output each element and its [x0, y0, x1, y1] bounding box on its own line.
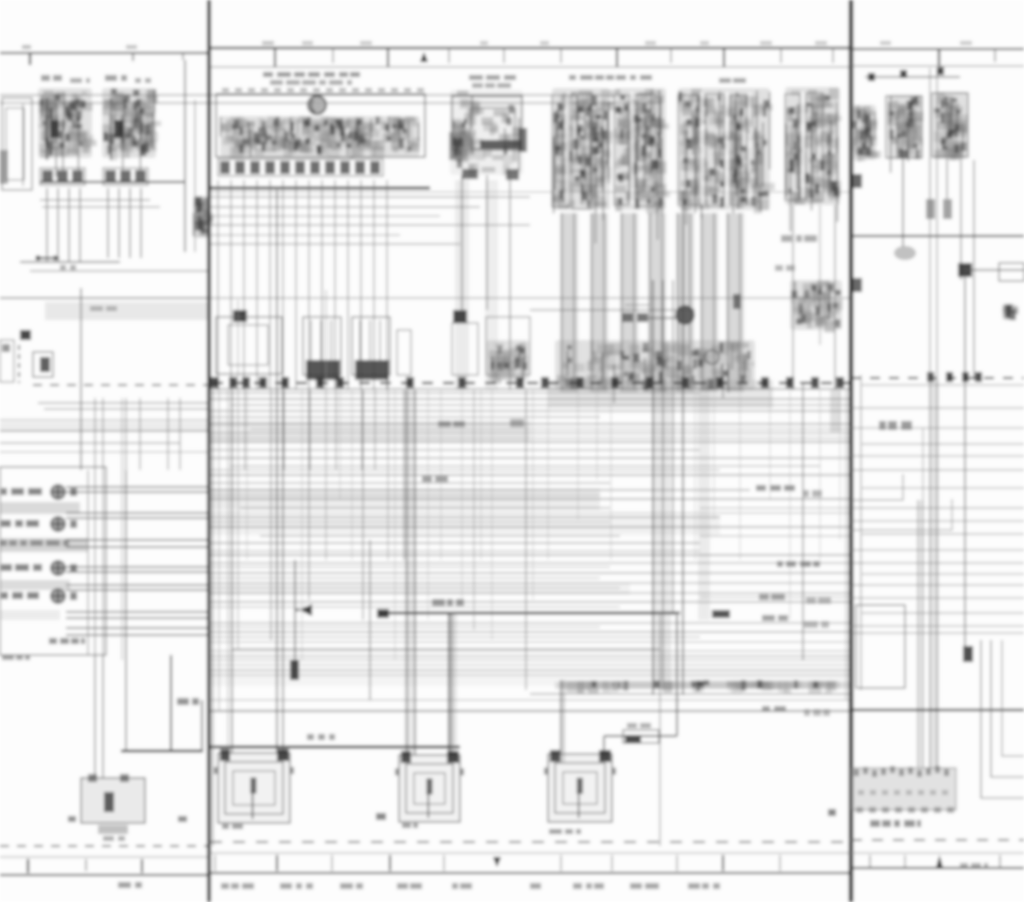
wire label — [422, 476, 448, 482]
wire — [917, 500, 919, 768]
wire — [965, 269, 1024, 271]
junction on dashed line — [975, 372, 982, 382]
wire — [210, 206, 480, 208]
wire — [700, 535, 851, 537]
tick on divider — [853, 174, 862, 188]
wire — [936, 68, 938, 768]
battery A — [81, 774, 145, 834]
wire end terminal — [377, 609, 389, 618]
injector N1 pin — [330, 320, 332, 360]
wire label — [804, 709, 830, 716]
wire — [110, 98, 112, 160]
wire — [335, 390, 337, 470]
wire label — [762, 706, 786, 712]
connector cross row 3 — [51, 561, 77, 575]
wire — [851, 597, 1024, 599]
wire — [532, 390, 534, 600]
page divider 2 — [849, 0, 854, 902]
wire — [210, 196, 530, 198]
wire label — [777, 561, 820, 567]
footer text — [573, 883, 604, 889]
wire — [334, 180, 336, 390]
connector T4a — [40, 168, 85, 185]
wire — [0, 94, 652, 96]
wire — [374, 390, 376, 470]
relay cluster right — [785, 87, 842, 232]
relay frame — [637, 94, 655, 206]
wire — [451, 613, 453, 755]
junction on dashed line — [259, 377, 267, 388]
wire — [42, 206, 160, 208]
footer text — [280, 883, 313, 889]
wire — [212, 390, 214, 846]
wire — [427, 390, 429, 620]
wire — [276, 190, 278, 753]
scale tick — [779, 855, 781, 871]
footer text — [118, 882, 142, 888]
wire — [739, 213, 741, 390]
wire — [118, 188, 120, 258]
wire — [603, 736, 605, 755]
V2 label — [402, 823, 418, 828]
dashed border line — [0, 845, 209, 847]
wire — [301, 390, 303, 660]
scale arrow — [420, 52, 428, 62]
relay group haze — [450, 90, 523, 177]
wire — [68, 188, 70, 262]
relay K1 label 2 — [70, 78, 90, 83]
wire — [256, 180, 258, 390]
harness shading — [455, 180, 469, 390]
ECU connector strip — [218, 159, 383, 176]
wire — [851, 455, 1024, 457]
ECU internal contacts — [220, 116, 420, 159]
valve label — [622, 313, 648, 322]
wire — [819, 205, 821, 345]
terminal — [943, 199, 952, 219]
wire — [210, 449, 700, 451]
wire — [851, 584, 1024, 586]
scale tick — [670, 48, 672, 63]
relay frame — [806, 93, 823, 201]
wire — [308, 390, 310, 600]
injector N2 pin — [359, 320, 361, 360]
junction node — [233, 310, 247, 322]
wire — [227, 390, 229, 753]
wire — [210, 441, 851, 443]
scale number — [360, 41, 372, 45]
wire — [246, 390, 248, 560]
junction on dashed line — [761, 377, 769, 388]
wire — [210, 562, 851, 564]
wire — [860, 375, 862, 690]
component marks — [790, 280, 843, 333]
title text — [263, 72, 360, 77]
wire — [210, 542, 700, 544]
scale number — [126, 45, 137, 49]
wire — [727, 213, 729, 390]
wire — [210, 243, 460, 245]
arrow junction — [295, 604, 312, 616]
bottom ruler line 2 — [851, 867, 1024, 869]
sensor box G2 — [452, 323, 478, 375]
instrument cluster block — [0, 467, 106, 655]
wire — [339, 390, 341, 500]
wire — [461, 175, 463, 310]
wire — [486, 175, 488, 310]
wire — [676, 615, 678, 736]
wire — [325, 290, 327, 560]
wire — [210, 577, 600, 579]
wire — [230, 465, 820, 467]
wire — [210, 659, 851, 661]
wire label — [879, 421, 912, 430]
wire — [66, 571, 209, 573]
component label 3 — [569, 75, 652, 80]
wire — [66, 584, 209, 586]
scale tick — [389, 855, 391, 871]
wire corner — [851, 499, 952, 530]
small component — [397, 330, 411, 375]
label text — [2, 655, 30, 660]
wire — [40, 199, 150, 201]
wire — [573, 213, 575, 390]
resistor label — [627, 723, 651, 728]
harness shading — [698, 390, 710, 620]
blower motor V1 — [214, 749, 294, 823]
wire — [530, 693, 851, 695]
terminal mark — [733, 294, 741, 309]
wire — [713, 213, 715, 390]
wire — [66, 539, 209, 541]
wire — [210, 566, 610, 568]
wire — [839, 390, 841, 540]
cluster gap — [566, 92, 570, 204]
wire — [701, 213, 703, 390]
wire corner — [851, 474, 903, 500]
scale number — [815, 41, 827, 45]
wire — [125, 470, 127, 751]
wire — [210, 437, 851, 439]
wire — [210, 699, 851, 701]
wire — [819, 390, 821, 560]
panel inner marks — [858, 790, 948, 795]
wire — [125, 398, 127, 470]
junction node — [290, 660, 299, 680]
scale tick — [676, 855, 678, 871]
scale tick — [27, 859, 29, 873]
scale tick — [182, 53, 184, 60]
wire — [210, 664, 851, 666]
relay frame — [785, 94, 800, 200]
wire — [94, 655, 96, 778]
wire — [184, 60, 186, 252]
injector N1 base — [306, 360, 340, 380]
relay frame — [614, 95, 629, 205]
scale tick — [387, 48, 389, 67]
scale arrow — [936, 855, 943, 868]
wire — [362, 390, 364, 620]
harness shading — [676, 213, 694, 392]
relay cut by divider — [852, 105, 882, 162]
cluster gap — [748, 92, 751, 204]
wire — [250, 428, 851, 430]
relay contact bar — [480, 140, 522, 149]
wire — [210, 554, 851, 556]
connector T4b — [103, 168, 148, 185]
junction on dashed line — [316, 377, 324, 388]
wire — [621, 213, 623, 390]
wire — [210, 631, 851, 633]
wire — [360, 180, 362, 390]
tick on divider — [853, 278, 862, 292]
junction on dashed line — [836, 377, 844, 388]
relay J17 frame — [452, 96, 522, 150]
wire — [309, 390, 311, 470]
wire — [210, 191, 851, 193]
connector symbol row 4 — [51, 589, 65, 603]
wire — [129, 188, 131, 258]
wire — [851, 407, 1024, 409]
wire — [210, 494, 600, 496]
wire — [66, 627, 209, 629]
terminal marks row — [560, 680, 840, 694]
shading band — [45, 302, 209, 320]
wire label — [804, 621, 829, 628]
wire — [46, 188, 48, 262]
wire — [66, 566, 209, 568]
wire — [561, 213, 563, 390]
wire — [509, 175, 511, 390]
wire — [282, 180, 284, 390]
component marks — [1002, 304, 1019, 320]
scale tick — [332, 48, 334, 63]
wire — [862, 384, 1024, 386]
harness shading — [620, 213, 638, 392]
wire — [713, 390, 715, 520]
scale number — [700, 41, 709, 45]
terminal marks — [555, 340, 755, 403]
shading band — [210, 420, 530, 442]
middle page top ruler line — [210, 66, 851, 68]
wire — [929, 158, 931, 199]
scale tick — [722, 855, 724, 871]
wire — [845, 390, 847, 700]
connector label — [49, 638, 85, 644]
shading — [0, 580, 70, 590]
shading — [0, 610, 60, 620]
harness shading — [653, 390, 671, 690]
junction on dashed line — [229, 377, 237, 388]
injector N1 pin — [310, 320, 312, 360]
scale number — [540, 41, 549, 45]
wire — [210, 526, 851, 528]
wire — [448, 613, 450, 755]
wire — [387, 380, 389, 560]
wire — [66, 546, 209, 548]
wire — [210, 423, 851, 425]
wire — [294, 560, 296, 680]
wire — [210, 489, 750, 491]
wire — [167, 398, 169, 470]
cluster gap — [630, 92, 634, 204]
wire — [243, 180, 245, 390]
injector N2 — [352, 317, 390, 375]
fuse panel cluster — [678, 88, 775, 225]
wire — [201, 700, 203, 751]
ground symbol tick — [68, 816, 76, 822]
junction on dashed line — [946, 372, 953, 382]
scale tick — [723, 48, 725, 67]
wire label — [432, 599, 464, 606]
right page top border — [851, 48, 1024, 50]
injector N2 pin — [369, 320, 371, 360]
wire — [865, 76, 960, 78]
shading band — [210, 488, 600, 510]
wire — [66, 617, 209, 619]
motor V3 — [544, 750, 616, 822]
wire — [20, 261, 120, 263]
scale number — [262, 41, 274, 45]
relay cluster — [614, 88, 670, 240]
wire — [347, 180, 349, 390]
component label 2 — [472, 83, 511, 88]
shading band — [210, 583, 630, 595]
relay K2 label — [105, 75, 127, 81]
junction node — [900, 70, 907, 78]
fuse/relay panel — [852, 768, 956, 810]
wire — [373, 180, 375, 390]
junction on dashed line — [962, 372, 969, 382]
wire corner — [981, 640, 1024, 798]
wire — [591, 213, 593, 390]
junction with arrow — [36, 255, 61, 261]
wire — [659, 615, 661, 846]
wire — [902, 158, 904, 247]
fuse S1 — [33, 352, 53, 377]
injector N1 — [303, 317, 341, 375]
junction node — [453, 310, 467, 323]
component label 4 — [719, 78, 746, 83]
wire — [210, 636, 700, 638]
cluster gap — [700, 92, 704, 204]
scale tick — [560, 48, 562, 63]
scale tick — [938, 49, 940, 66]
fuse frame — [730, 95, 747, 205]
wire — [802, 383, 804, 660]
injector N1 pin — [320, 320, 322, 360]
wire — [662, 280, 664, 690]
component box — [856, 605, 905, 688]
wire — [237, 300, 239, 650]
bottom ruler line — [851, 852, 1024, 854]
connector sleeve — [894, 246, 916, 260]
panel label — [870, 820, 921, 827]
shading — [548, 380, 773, 408]
switch frame — [552, 95, 569, 207]
junction on dashed line — [576, 377, 584, 388]
scale arrow — [493, 857, 501, 867]
component label — [469, 75, 516, 80]
footer text — [630, 883, 659, 889]
right page top ruler line — [851, 65, 1024, 67]
control unit J-left (cut) — [2, 98, 32, 190]
scale tick — [141, 859, 143, 873]
footer text — [688, 883, 720, 889]
ignition switch cluster — [552, 88, 615, 244]
wire — [700, 507, 851, 509]
dashed border line — [210, 841, 851, 843]
wire — [139, 398, 141, 470]
idle valve circle — [676, 306, 694, 324]
sensor box G1 — [216, 317, 282, 374]
wire — [210, 606, 620, 608]
bottom ruler line 2 — [0, 874, 209, 876]
wire — [210, 655, 851, 657]
injector N2 pin — [379, 320, 381, 360]
wire — [851, 562, 1024, 564]
motor V2 — [395, 751, 464, 822]
wire — [0, 419, 209, 421]
page divider — [207, 0, 211, 902]
wire — [308, 180, 310, 390]
dashed section line left page — [33, 384, 209, 386]
wire — [610, 390, 612, 560]
wire — [102, 655, 104, 778]
wire — [851, 625, 1024, 627]
scale tick — [616, 48, 618, 67]
relay contacts left — [452, 128, 476, 162]
relay contact right — [518, 128, 527, 152]
wire — [792, 205, 794, 390]
wire — [369, 540, 371, 700]
scale tick — [994, 49, 996, 62]
relay K1 label — [41, 75, 62, 81]
harness shading — [917, 500, 924, 768]
wire — [44, 408, 209, 410]
harness shading — [929, 380, 939, 768]
bottom ruler line 2 — [210, 872, 851, 874]
pin label row 4 — [1, 592, 39, 599]
wire — [57, 188, 59, 262]
wire — [210, 474, 851, 476]
wire — [929, 68, 931, 768]
fuse frame — [706, 94, 724, 206]
wire — [107, 188, 109, 258]
wire — [851, 549, 1024, 551]
junction on dashed line — [406, 377, 414, 388]
wire — [862, 573, 1024, 575]
ground symbol tick — [178, 816, 187, 822]
wire — [351, 390, 353, 560]
wire — [851, 632, 1024, 634]
fuse frame — [678, 95, 699, 205]
relay K2 contact — [114, 120, 123, 138]
battery label — [103, 836, 125, 841]
wire — [66, 512, 209, 514]
junction on dashed line — [281, 377, 289, 388]
wire — [834, 205, 836, 390]
footer text — [530, 883, 541, 889]
scale number — [960, 41, 972, 45]
wire — [210, 469, 720, 471]
resistor dark part — [625, 735, 641, 743]
wire — [789, 390, 791, 620]
shading band — [210, 670, 851, 686]
wire — [210, 669, 851, 671]
wire — [121, 398, 123, 660]
wire — [386, 180, 388, 390]
